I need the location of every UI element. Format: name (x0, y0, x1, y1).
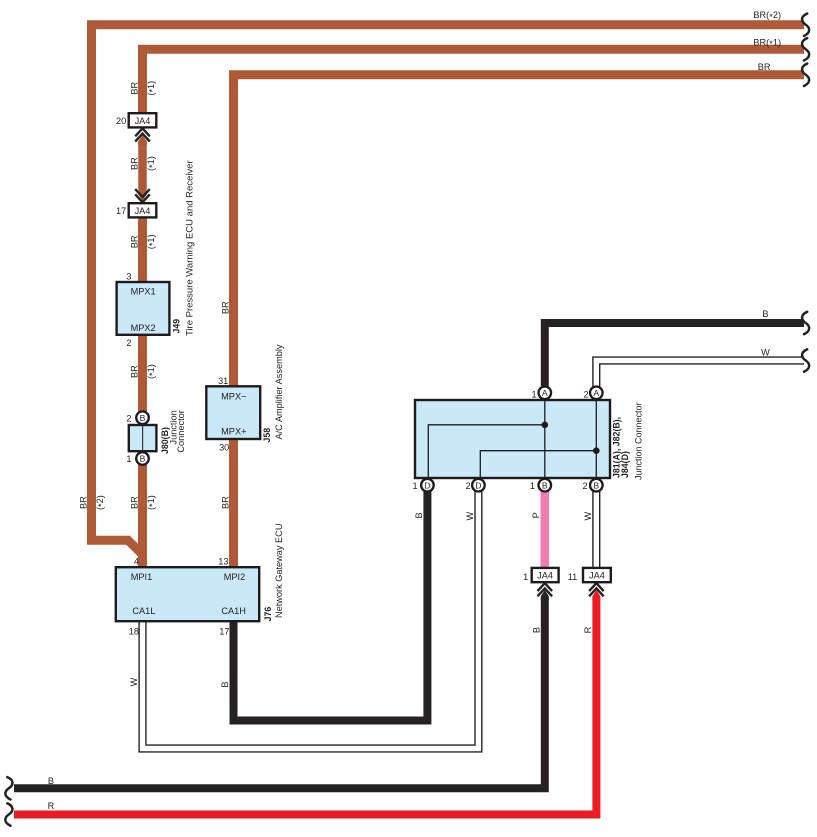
svg-text:3: 3 (126, 271, 131, 281)
svg-text:BR: BR (130, 157, 140, 170)
svg-text:BR(*2): BR(*2) (753, 10, 781, 22)
svg-text:18: 18 (129, 626, 139, 636)
wire B from right break to junction connector pin 1A (545, 323, 804, 399)
svg-text:17: 17 (219, 626, 229, 636)
internal wire to 2D (480, 451, 596, 478)
svg-text:(*2): (*2) (95, 495, 107, 510)
svg-text:MPI2: MPI2 (224, 572, 245, 582)
wire P from pin 1B down to JA4 1 (541, 487, 550, 567)
svg-text:(*1): (*1) (146, 81, 158, 96)
wire BR(*1) from right break down to JA4 top (143, 49, 805, 113)
wire W from pin 2B down to JA4 11 (592, 487, 600, 567)
svg-text:B: B (531, 627, 541, 633)
svg-text:W: W (129, 677, 139, 686)
wire B bottom from left break up to JA4 1 arrow (14, 598, 545, 788)
break symbol BR(*2) (802, 14, 809, 36)
svg-text:J84(D): J84(D) (620, 451, 630, 478)
svg-text:JA4: JA4 (589, 571, 605, 581)
wire BR(*2) from right break to Network Gateway ECU pin 4 (92, 25, 805, 555)
svg-text:R: R (48, 801, 55, 811)
pin 1A circle (539, 387, 552, 400)
svg-text:J58: J58 (262, 428, 272, 443)
svg-text:A: A (593, 388, 599, 398)
svg-text:MPX+: MPX+ (221, 426, 246, 436)
svg-text:1: 1 (531, 389, 536, 399)
svg-text:MPX1: MPX1 (131, 287, 156, 297)
connector JA4 (pin 11) box (583, 568, 611, 582)
connector JA4 (pin 17) box (129, 203, 157, 217)
svg-text:CA1L: CA1L (132, 606, 155, 616)
svg-text:B: B (48, 776, 54, 786)
svg-text:13: 13 (218, 556, 228, 566)
svg-text:D: D (475, 480, 481, 490)
svg-text:A: A (542, 388, 548, 398)
svg-text:JA4: JA4 (135, 206, 151, 216)
svg-text:J76: J76 (263, 607, 273, 622)
svg-text:R: R (583, 626, 593, 633)
svg-text:4: 4 (134, 556, 139, 566)
svg-text:BR: BR (758, 62, 771, 72)
svg-text:30: 30 (219, 443, 229, 453)
break symbol B bottom (5, 777, 12, 799)
break symbol B (802, 312, 809, 334)
svg-text:2: 2 (583, 389, 588, 399)
svg-text:BR: BR (221, 301, 231, 314)
svg-text:B: B (593, 480, 599, 490)
svg-text:Tire Pressure Warning ECU and: Tire Pressure Warning ECU and Receiver (184, 160, 195, 336)
arrow into JA4 17 (chevrons + brown tip) (138, 190, 147, 200)
break symbol R bottom (5, 803, 12, 825)
svg-text:MPX−: MPX− (221, 391, 246, 401)
pin 1 circle B (136, 452, 149, 465)
arrow into JA4 20 (chevrons + brown tip) (138, 135, 147, 145)
svg-text:1: 1 (530, 481, 535, 491)
connector JA4 (pin 1) box (532, 568, 559, 582)
svg-text:1: 1 (126, 454, 131, 464)
svg-text:BR: BR (130, 235, 140, 248)
svg-text:31: 31 (218, 376, 228, 386)
pin 2A circle (590, 387, 603, 400)
svg-text:11: 11 (568, 572, 578, 582)
svg-text:BR(*1): BR(*1) (753, 38, 781, 50)
svg-text:1: 1 (523, 572, 528, 582)
svg-text:D: D (424, 480, 430, 490)
pin 2D circle (472, 479, 485, 492)
svg-text:BR: BR (130, 365, 140, 378)
svg-text:1: 1 (412, 481, 417, 491)
svg-text:B: B (414, 512, 424, 518)
svg-text:(*1): (*1) (146, 495, 158, 510)
svg-text:MPX2: MPX2 (131, 323, 156, 333)
wire W from pin 18 CA1L to junction connector pin 2D (143, 487, 479, 749)
svg-text:BR: BR (130, 81, 140, 94)
svg-text:Connector: Connector (176, 410, 186, 452)
svg-text:J49: J49 (172, 319, 182, 334)
svg-text:20: 20 (116, 116, 126, 126)
pin 1D circle (421, 479, 434, 492)
wire B from pin 17 CA1H to junction connector pin 1D (234, 487, 428, 721)
svg-text:CA1H: CA1H (221, 606, 246, 616)
svg-text:(*1): (*1) (146, 156, 158, 171)
svg-text:(*1): (*1) (146, 234, 158, 249)
svg-text:P: P (531, 512, 541, 518)
ECU J58 A/C Amplifier Assembly box (206, 386, 260, 439)
svg-text:W: W (583, 512, 593, 521)
break symbol BR (802, 64, 809, 86)
svg-text:BR: BR (130, 496, 140, 509)
ECU J49 Tire Pressure Warning ECU box (117, 282, 170, 335)
arrow into JA4 11 (chevrons + red tip) (592, 590, 600, 600)
svg-text:MPI1: MPI1 (131, 572, 152, 582)
svg-text:2: 2 (465, 481, 470, 491)
junction dot 2 (593, 447, 600, 454)
junction connector J81/J82/J84 box (415, 400, 610, 478)
svg-text:BR: BR (221, 496, 231, 509)
svg-text:B: B (140, 413, 146, 423)
arrow into JA4 1 (chevrons + black tip) (541, 590, 549, 600)
svg-text:Network Gateway ECU: Network Gateway ECU (274, 524, 284, 618)
break symbol W (802, 349, 809, 371)
svg-text:JA4: JA4 (135, 116, 151, 126)
svg-text:W: W (465, 512, 475, 521)
svg-text:BR: BR (79, 496, 89, 509)
svg-text:JA4: JA4 (537, 571, 553, 581)
connector JA4 (pin 20) box (129, 113, 157, 127)
svg-text:17: 17 (116, 206, 126, 216)
svg-text:Junction Connector: Junction Connector (634, 402, 644, 480)
wire BR from right break down through J58 to pin 13 (234, 75, 805, 567)
internal wire to 1D (428, 425, 545, 478)
pin 1B circle (539, 479, 552, 492)
ECU J76 Network Gateway ECU box (116, 567, 259, 621)
svg-text:B: B (220, 682, 230, 688)
junction dot 1 (542, 422, 549, 429)
svg-text:A/C Amplifier Assembly: A/C Amplifier Assembly (274, 344, 284, 439)
junction connector J80(B) box (129, 425, 157, 451)
svg-text:W: W (761, 347, 770, 357)
svg-text:2: 2 (126, 413, 131, 423)
wire W from right break to junction connector pin 2A (596, 361, 804, 399)
internal wire 2A-2B (595, 400, 597, 478)
pin 2 circle B (136, 411, 149, 424)
wire R bottom from left break up to JA4 11 arrow (14, 598, 596, 815)
wire BR(*1) segment between JA4 connectors (pointed both ends) (138, 135, 147, 195)
svg-text:B: B (762, 309, 768, 319)
internal wire 1A-1B (544, 400, 546, 478)
svg-text:(*1): (*1) (146, 364, 158, 379)
svg-text:2: 2 (126, 338, 131, 348)
pin 2B circle (590, 479, 603, 492)
break symbol BR(*1) (802, 38, 809, 60)
svg-text:2: 2 (582, 481, 587, 491)
wire BR(*1) from JA4 17 down through J49 and J80(B) to pin 4 (138, 217, 147, 566)
svg-text:B: B (140, 454, 146, 464)
svg-text:B: B (542, 480, 548, 490)
